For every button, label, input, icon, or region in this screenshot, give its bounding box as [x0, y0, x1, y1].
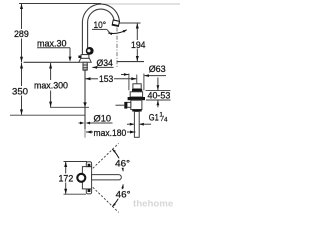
svg-text:153: 153 — [99, 73, 113, 84]
svg-text:289: 289 — [14, 28, 29, 39]
svg-text:Ø34: Ø34 — [97, 57, 113, 68]
svg-text:Ø10: Ø10 — [94, 112, 112, 123]
svg-text:350: 350 — [12, 85, 28, 96]
svg-text:max.30: max.30 — [37, 37, 67, 48]
svg-text:194: 194 — [131, 39, 146, 50]
svg-text:46°: 46° — [115, 158, 130, 169]
svg-text:46°: 46° — [116, 188, 131, 199]
svg-text:thehome: thehome — [133, 198, 173, 208]
svg-text:10°: 10° — [94, 19, 107, 30]
svg-text:4: 4 — [164, 116, 168, 123]
svg-text:G1: G1 — [149, 111, 159, 122]
svg-text:max.300: max.300 — [34, 80, 68, 91]
svg-text:Ø63: Ø63 — [149, 63, 166, 74]
svg-text:172: 172 — [59, 173, 74, 184]
svg-text:max.180: max.180 — [94, 127, 127, 138]
svg-text:40-53: 40-53 — [148, 90, 171, 101]
